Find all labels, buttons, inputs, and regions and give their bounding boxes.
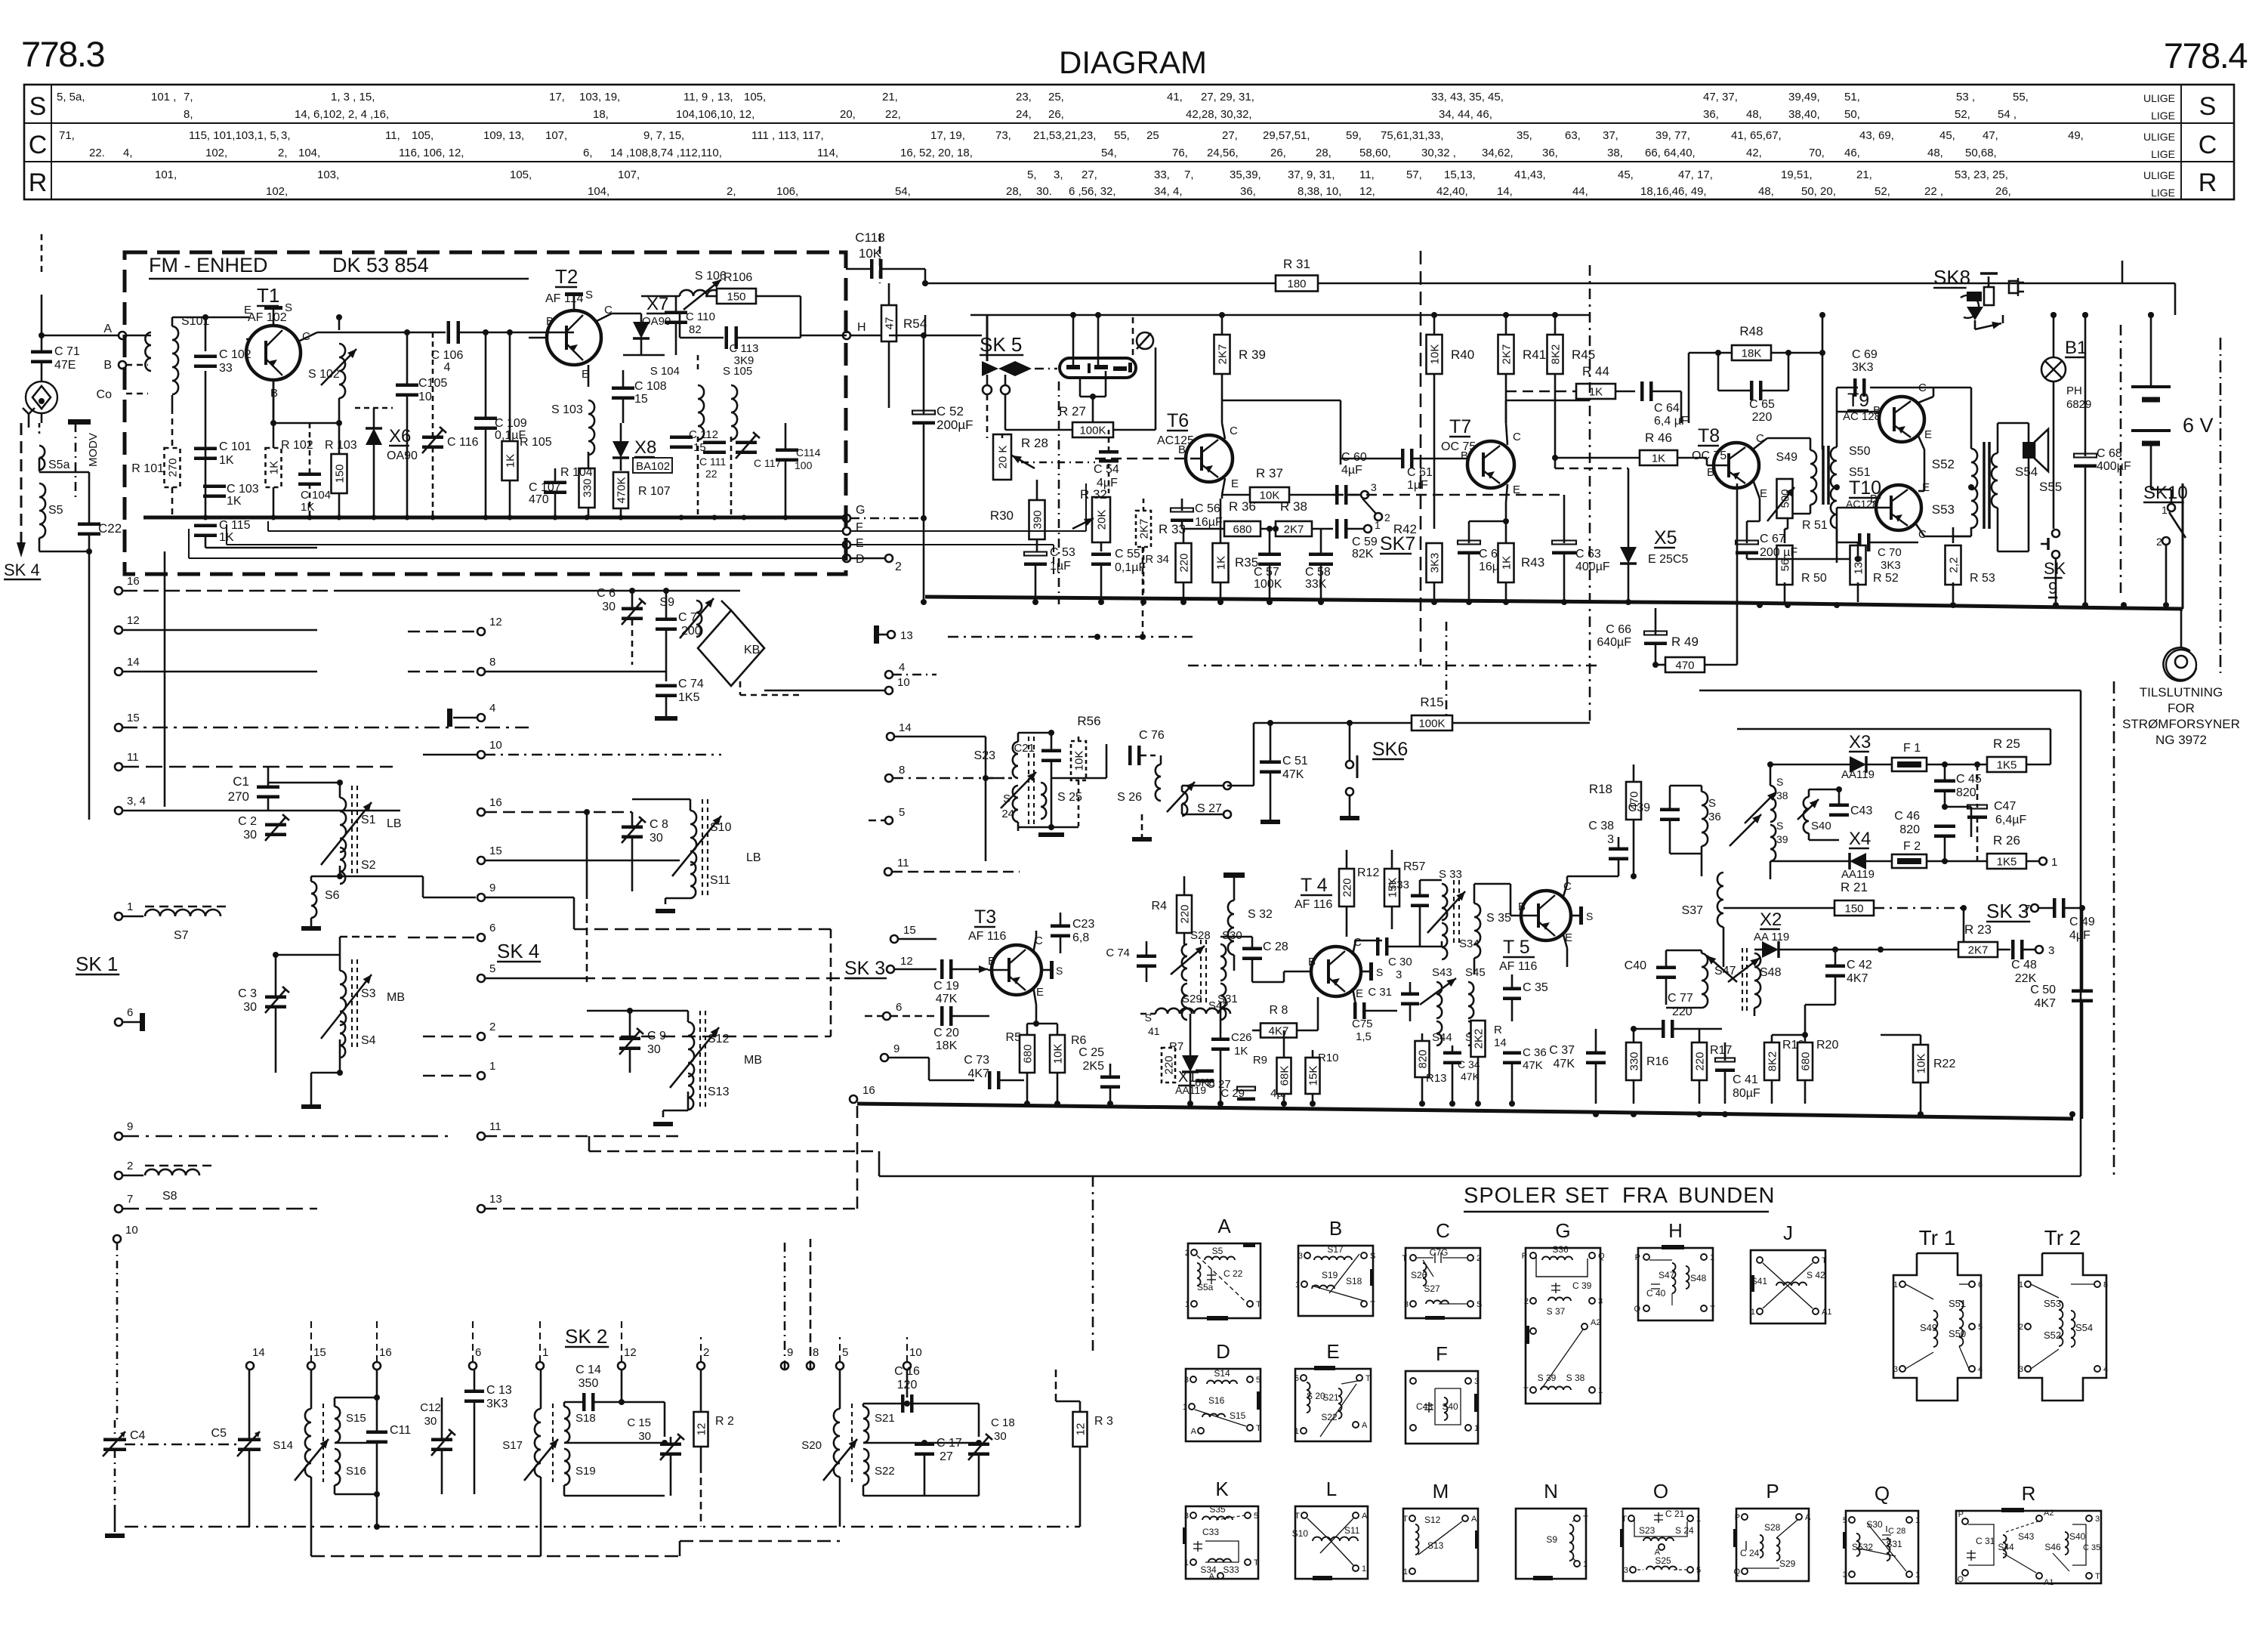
svg-text:C43: C43 [1416, 1401, 1433, 1412]
svg-text:X5: X5 [1654, 527, 1677, 548]
dashed vertical R33 below bus [1142, 547, 1144, 637]
capacitor C47 6.4uF [1967, 805, 1987, 809]
svg-text:R 44: R 44 [1582, 364, 1609, 378]
svg-text:R6: R6 [1071, 1034, 1087, 1047]
coil view box J [1751, 1250, 1825, 1323]
lamp B1 [2041, 357, 2066, 381]
svg-text:12: 12 [127, 614, 140, 627]
svg-text:16: 16 [489, 796, 502, 809]
svg-text:6 V: 6 V [2183, 414, 2214, 437]
svg-text:E: E [1760, 487, 1767, 500]
capacitor C11 [366, 1431, 387, 1435]
svg-text:AF 102: AF 102 [248, 311, 287, 324]
svg-text:S54: S54 [2015, 465, 2038, 479]
coil S102 tunable [339, 344, 345, 398]
svg-text:R13: R13 [1426, 1072, 1447, 1085]
diode X6 OA90 [366, 428, 382, 445]
svg-text:200µF: 200µF [937, 418, 974, 432]
svg-text:2: 2 [895, 561, 902, 573]
svg-text:1K: 1K [227, 495, 242, 508]
svg-text:AC125: AC125 [1157, 434, 1194, 447]
ground S11 [656, 909, 675, 913]
dash-dot vertical at 2105 [1589, 265, 1591, 723]
svg-text:P: P [1522, 1252, 1527, 1261]
mechanical link dash-dot vertical SK5 [1058, 381, 1060, 604]
svg-text:E: E [1924, 428, 1932, 441]
svg-text:C 107: C 107 [529, 481, 561, 494]
svg-text:R 2: R 2 [715, 1415, 734, 1428]
svg-text:220: 220 [1672, 1005, 1693, 1018]
svg-text:12: 12 [900, 955, 913, 968]
svg-text:LIGE: LIGE [2151, 110, 2175, 122]
svg-text:S13: S13 [708, 1086, 730, 1098]
svg-text:4K7: 4K7 [1269, 1025, 1289, 1038]
terminal E [843, 541, 850, 548]
svg-text:SET: SET [1565, 1184, 1609, 1208]
svg-text:30: 30 [424, 1415, 437, 1428]
svg-text:T: T [1294, 1512, 1300, 1521]
svg-text:C 20: C 20 [933, 1027, 959, 1039]
svg-text:E 25C5: E 25C5 [1648, 553, 1688, 566]
svg-text:S: S [1370, 1252, 1375, 1261]
svg-text:S12: S12 [1424, 1515, 1441, 1525]
svg-text:3: 3 [2019, 1365, 2023, 1374]
terminal 6 stub [122, 1021, 140, 1024]
dash-dot vertical at 1165 upper [879, 234, 881, 283]
svg-text:3: 3 [1598, 1297, 1603, 1306]
svg-text:X1: X1 [1178, 1069, 1196, 1086]
svg-text:C 73: C 73 [964, 1054, 989, 1067]
svg-text:3: 3 [1404, 1300, 1409, 1309]
driver secondary S50 [1831, 447, 1837, 488]
svg-text:1: 1 [2051, 856, 2057, 869]
coil S104 [698, 385, 704, 440]
resistor R102 1K [266, 448, 282, 487]
svg-text:C 22: C 22 [1223, 1268, 1243, 1279]
resistor R101 270 [165, 448, 181, 487]
svg-text:C39: C39 [1628, 801, 1650, 814]
capacitor C103 1K [203, 485, 226, 489]
svg-text:C7G: C7G [1430, 1247, 1449, 1258]
svg-text:8K2: 8K2 [1767, 1052, 1779, 1072]
svg-text:220: 220 [1752, 411, 1773, 424]
svg-text:G: G [856, 504, 865, 517]
svg-text:S18: S18 [1346, 1276, 1362, 1286]
svg-text:4µF: 4µF [1341, 464, 1362, 477]
resistor R39 2K7 [1214, 335, 1230, 374]
svg-text:C 68: C 68 [2097, 447, 2122, 460]
tuning arrow S1 [321, 802, 372, 865]
svg-text:11: 11 [489, 1120, 501, 1133]
capacitor C49 4uF [2053, 898, 2057, 918]
resistor R41 2K7 [1498, 335, 1514, 374]
capacitor C19 47K [940, 959, 944, 979]
svg-text:5: 5 [899, 806, 905, 819]
terminal 3-4 wire [122, 810, 400, 812]
svg-text:24: 24 [1001, 808, 1014, 820]
svg-text:150: 150 [334, 464, 347, 483]
svg-text:C 52: C 52 [937, 404, 964, 418]
coil S9 tunable [696, 601, 702, 637]
svg-text:S 27: S 27 [1197, 802, 1222, 815]
coil S11 [690, 862, 696, 898]
section frame wires right [1699, 690, 2081, 692]
svg-text:9: 9 [893, 1042, 899, 1055]
svg-text:S: S [1708, 797, 1716, 810]
svg-text:4: 4 [899, 661, 905, 674]
svg-text:AA119: AA119 [1841, 768, 1875, 781]
svg-text:S49: S49 [1776, 451, 1798, 464]
svg-text:10: 10 [489, 739, 502, 752]
svg-text:1: 1 [1185, 1300, 1190, 1309]
svg-text:R106: R106 [724, 271, 752, 284]
coil S35 [1474, 903, 1480, 958]
svg-text:E: E [856, 537, 864, 550]
svg-text:3: 3 [1607, 833, 1614, 846]
left terminal column SK1 [115, 587, 122, 595]
wire mid 9 [485, 897, 574, 899]
svg-text:Tr 2: Tr 2 [2044, 1226, 2081, 1249]
svg-text:82: 82 [689, 323, 702, 336]
tuning arrow S3 [321, 974, 372, 1039]
capacitor C51 47K [1260, 761, 1281, 764]
capacitor C27 [1196, 1070, 1214, 1073]
svg-text:R17: R17 [1710, 1044, 1732, 1057]
svg-text:T: T [1254, 1558, 1259, 1567]
svg-text:C 103: C 103 [227, 483, 259, 496]
wire T9 collector to S52 top [1918, 397, 1933, 403]
svg-text:N: N [1544, 1480, 1558, 1503]
svg-text:R10: R10 [1318, 1052, 1339, 1064]
svg-text:2K7: 2K7 [1217, 344, 1230, 365]
svg-text:6,4 µF: 6,4 µF [1654, 415, 1689, 428]
svg-text:S12: S12 [708, 1033, 730, 1045]
svg-text:FRA: FRA [1622, 1184, 1668, 1208]
capacitor C66 640uF [1644, 632, 1667, 635]
svg-text:S40: S40 [2069, 1531, 2086, 1542]
wire mid 12 [408, 631, 477, 633]
coil S3 MB oscillator [340, 971, 346, 1025]
terminal 12 SK3 [887, 965, 894, 973]
svg-text:D: D [1216, 1340, 1230, 1363]
svg-text:P: P [1958, 1510, 1964, 1519]
T2 top lead S [573, 296, 575, 310]
svg-text:C75: C75 [1352, 1018, 1373, 1030]
svg-text:14: 14 [1494, 1036, 1507, 1049]
svg-text:2: 2 [1384, 511, 1390, 524]
wire SK5 column down [986, 315, 989, 361]
wire top of S1 [339, 783, 341, 798]
svg-text:1K: 1K [1589, 386, 1603, 399]
svg-text:Q: Q [1957, 1575, 1964, 1584]
svg-text:180: 180 [1287, 278, 1306, 291]
svg-text:3: 3 [1893, 1365, 1898, 1374]
svg-text:J: J [1783, 1222, 1793, 1244]
svg-text:1K: 1K [1234, 1045, 1248, 1058]
coil S34 [1442, 923, 1447, 959]
svg-text:A2: A2 [2044, 1509, 2054, 1518]
svg-text:1: 1 [1183, 1403, 1187, 1412]
svg-text:FM - ENHED: FM - ENHED [149, 254, 268, 276]
svg-text:5: 5 [1843, 1516, 1847, 1525]
stub above SK2 terminal 1 [539, 1318, 541, 1362]
resistor R33 2K7 dashed [1136, 511, 1151, 547]
svg-text:1: 1 [1184, 1558, 1189, 1567]
svg-text:2K7: 2K7 [1501, 344, 1514, 365]
capacitor C48 22K [2011, 940, 2015, 959]
capacitor C63 400uF [1552, 541, 1576, 545]
svg-text:T6: T6 [1167, 410, 1189, 431]
IF transformer core S23 [1028, 737, 1029, 827]
svg-text:T: T [1710, 1305, 1715, 1314]
core S47/S48 [1742, 948, 1743, 1012]
wire S30 S31 to T4 base [1220, 1002, 1222, 1012]
svg-text:1K: 1K [268, 461, 281, 474]
svg-text:41: 41 [1148, 1025, 1160, 1037]
svg-text:S 24: S 24 [1675, 1525, 1694, 1536]
svg-text:T2: T2 [555, 265, 578, 288]
resistor R3 12 [1073, 1412, 1088, 1447]
svg-text:16: 16 [379, 1346, 392, 1359]
svg-text:640µF: 640µF [1597, 636, 1631, 649]
svg-text:T: T [2095, 1572, 2100, 1581]
svg-text:10K: 10K [1052, 1044, 1065, 1064]
coil S105 dashed [731, 385, 737, 440]
wire terminal 9 8 up [784, 1239, 786, 1370]
svg-text:C11: C11 [390, 1424, 411, 1437]
svg-text:K: K [1215, 1478, 1229, 1500]
wire S12 top [687, 1011, 690, 1022]
terminal 11 wire [122, 766, 393, 768]
svg-text:S48: S48 [1760, 966, 1782, 979]
svg-text:7: 7 [2024, 903, 2030, 916]
wire S11 bottom ground [690, 880, 691, 899]
svg-text:Co: Co [97, 388, 113, 401]
svg-text:C: C [29, 131, 48, 159]
svg-text:X4: X4 [1849, 829, 1871, 849]
resistor R40 10K [1427, 335, 1443, 374]
T3 top S lead [1041, 969, 1050, 971]
svg-text:16: 16 [127, 575, 140, 588]
transistor T1 [246, 326, 301, 380]
ground below C74 [655, 716, 677, 721]
svg-text:C 19: C 19 [933, 980, 959, 993]
svg-text:680: 680 [1233, 524, 1251, 536]
stub above SK2 terminal 16 [376, 1318, 378, 1362]
svg-text:MODV: MODV [87, 433, 100, 467]
svg-text:P: P [1735, 1513, 1740, 1522]
svg-text:S21: S21 [1322, 1392, 1339, 1403]
wire S13 bottom ground [687, 1092, 690, 1110]
svg-text:C 21: C 21 [1665, 1509, 1685, 1519]
svg-text:T10: T10 [1849, 477, 1881, 499]
svg-text:ULIGE: ULIGE [2143, 169, 2175, 181]
svg-text:R 52: R 52 [1873, 572, 1899, 585]
capacitor C71 47E [31, 351, 52, 354]
svg-text:S36: S36 [1552, 1244, 1569, 1255]
wire lower bus right hook [2072, 1103, 2074, 1119]
svg-text:3K3: 3K3 [486, 1398, 508, 1410]
svg-text:C 2: C 2 [238, 815, 257, 828]
wire KB right to terminal 10 [764, 690, 885, 692]
svg-text:C 77: C 77 [1668, 992, 1693, 1005]
svg-text:S 106: S 106 [695, 270, 727, 283]
wire T1 base down [273, 380, 275, 423]
svg-text:L: L [1326, 1478, 1337, 1500]
terminal A [119, 332, 126, 339]
coil S25 [1041, 783, 1046, 819]
wire mid 15 [485, 860, 680, 862]
coil S10 LB IF [690, 811, 696, 865]
svg-text:C 110: C 110 [686, 310, 715, 323]
svg-text:E: E [1356, 987, 1363, 1000]
svg-text:S22: S22 [875, 1465, 895, 1478]
svg-text:C47: C47 [1994, 800, 2016, 813]
coil S23 S24 [1013, 742, 1018, 778]
svg-text:9: 9 [127, 1120, 133, 1133]
svg-text:A2: A2 [1591, 1318, 1600, 1327]
svg-text:8: 8 [899, 764, 905, 777]
coil view box D [1186, 1369, 1261, 1441]
svg-text:B: B [546, 315, 554, 328]
svg-text:B1: B1 [2065, 338, 2087, 358]
core S17/S18 [552, 1404, 554, 1482]
svg-text:MB: MB [387, 991, 405, 1004]
coil view box E [1295, 1369, 1371, 1441]
svg-text:F: F [856, 521, 863, 534]
svg-text:14: 14 [252, 1346, 265, 1359]
wire below-bus dash-dot right [1188, 665, 1601, 667]
svg-text:C 59: C 59 [1352, 536, 1378, 548]
svg-text:S15: S15 [1230, 1410, 1246, 1421]
SK2 lower connection lines [376, 1526, 378, 1527]
svg-text:8: 8 [813, 1346, 819, 1359]
svg-text:S 35: S 35 [1486, 912, 1511, 925]
svg-text:13: 13 [900, 629, 913, 642]
svg-text:C 65: C 65 [1749, 398, 1775, 411]
capacitor C13 3K3 [464, 1390, 484, 1394]
capacitor C37 47K [1586, 1052, 1606, 1055]
wire T1 collector to C106 [298, 332, 317, 341]
coil S36 [1702, 792, 1708, 846]
resistor R16 330 [1626, 1042, 1641, 1080]
wire S2 to SK4 column [340, 876, 423, 878]
svg-text:R18: R18 [1589, 782, 1612, 796]
svg-text:C 41: C 41 [1733, 1073, 1758, 1086]
coil S29 [1182, 984, 1187, 1020]
svg-text:S 104: S 104 [650, 365, 680, 378]
svg-text:ULIGE: ULIGE [2143, 131, 2175, 143]
svg-text:T 5: T 5 [1503, 937, 1530, 958]
wire T4 emitter [1353, 988, 1356, 1005]
svg-text:1: 1 [1403, 1567, 1408, 1577]
transistor T9 [1879, 397, 1924, 442]
svg-text:C33: C33 [1202, 1527, 1219, 1537]
svg-text:1: 1 [1915, 1571, 1920, 1580]
transistor T5 [1521, 891, 1571, 940]
svg-text:C: C [1436, 1219, 1450, 1242]
terminal 5 right column [885, 817, 893, 824]
wire mid 10 [423, 754, 477, 756]
capacitor C2 30 trimmer [265, 823, 286, 827]
svg-text:R 27: R 27 [1059, 404, 1086, 418]
svg-text:C 115: C 115 [219, 519, 251, 532]
svg-text:5: 5 [1254, 1512, 1258, 1521]
wire H to R54 column [850, 335, 889, 337]
svg-text:S 105: S 105 [723, 365, 752, 378]
svg-text:C 31: C 31 [1976, 1536, 1995, 1546]
coil view box R [1956, 1511, 2101, 1583]
wire R15 line left end [1227, 785, 1254, 787]
ground below C4 [114, 1511, 116, 1532]
svg-text:1K5: 1K5 [1997, 759, 2017, 772]
SK7 switch contacts [1361, 491, 1369, 499]
svg-text:220: 220 [1178, 553, 1191, 572]
svg-text:3: 3 [1184, 1512, 1189, 1521]
svg-text:S7: S7 [174, 929, 189, 942]
wire T8 base [1707, 465, 1729, 467]
core S28 [1200, 940, 1202, 1005]
svg-text:38: 38 [1776, 789, 1788, 801]
svg-text:C: C [2199, 131, 2217, 159]
svg-text:1: 1 [2162, 504, 2168, 516]
resistor R53 2.2 [1946, 545, 1961, 585]
wire D to terminal 2 [850, 557, 885, 560]
svg-text:R41: R41 [1523, 347, 1546, 362]
coil S20 [834, 1409, 840, 1477]
svg-text:S: S [1776, 776, 1783, 788]
diode X1 AA119 [1182, 1055, 1199, 1072]
svg-text:H: H [857, 321, 866, 334]
T4 top S lead [1360, 971, 1369, 973]
terminal 9 wire [122, 1135, 453, 1138]
capacitor C21 [1041, 749, 1061, 753]
TILSLUTNING connector symbol [2166, 650, 2196, 680]
svg-text:10: 10 [418, 391, 432, 403]
coil view box L [1295, 1506, 1368, 1579]
svg-text:100K: 100K [1254, 578, 1282, 591]
svg-text:S30: S30 [1222, 929, 1242, 942]
svg-text:R54: R54 [903, 317, 927, 331]
wire mid 13 [485, 1208, 680, 1210]
svg-text:22: 22 [705, 468, 717, 480]
svg-text:S30: S30 [1866, 1519, 1883, 1530]
resistor R12 220 [1339, 869, 1354, 906]
vertical lines below terminals 5 and 2 [700, 1465, 702, 1527]
terminal 2 right of FM box [885, 554, 893, 562]
svg-text:S49: S49 [1920, 1322, 1937, 1333]
svg-text:C 48: C 48 [2011, 959, 2037, 971]
svg-text:R56: R56 [1077, 714, 1100, 728]
resistor R2 12 [694, 1412, 708, 1447]
svg-text:S54: S54 [2075, 1322, 2093, 1333]
svg-text:C 55: C 55 [1115, 548, 1140, 561]
coil S16 [335, 1449, 340, 1485]
svg-text:C22: C22 [98, 521, 122, 536]
wire T6 base [1095, 458, 1202, 460]
svg-text:30: 30 [602, 601, 616, 613]
svg-text:S16: S16 [346, 1465, 366, 1478]
main lower bus [857, 1104, 2073, 1119]
svg-text:S5: S5 [1212, 1246, 1223, 1256]
svg-text:E: E [1922, 481, 1930, 494]
svg-text:27: 27 [940, 1450, 953, 1463]
svg-text:6: 6 [896, 1001, 902, 1014]
coil S18 [564, 1407, 569, 1443]
svg-text:S 39: S 39 [1538, 1373, 1557, 1383]
svg-text:2: 2 [1185, 1249, 1190, 1258]
svg-text:A: A [1191, 1427, 1197, 1436]
